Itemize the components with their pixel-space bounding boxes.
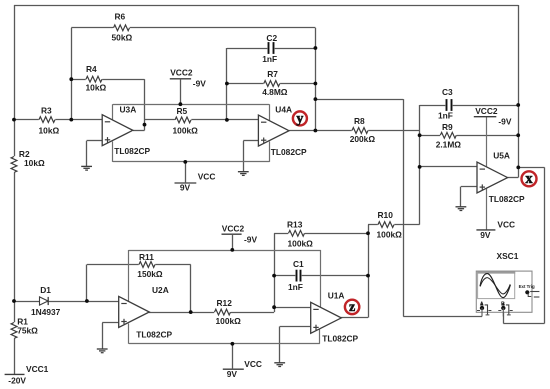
- wire R4 to U3A output vertical: [144, 79, 146, 130]
- resistor R8: [352, 127, 369, 134]
- svg-text:C2: C2: [266, 33, 277, 43]
- wire U1A minus input: [274, 307, 311, 309]
- op-amp U3A: [102, 115, 133, 146]
- svg-text:Ext Trig: Ext Trig: [519, 284, 535, 289]
- svg-text:TL082CP: TL082CP: [114, 146, 150, 156]
- svg-text:C1: C1: [293, 259, 304, 269]
- svg-text:1nF: 1nF: [288, 282, 303, 292]
- svg-text:10kΩ: 10kΩ: [86, 82, 107, 92]
- resistor R2: [11, 156, 18, 173]
- VCC2 stem U5A: [486, 117, 488, 168]
- svg-text:-9V: -9V: [193, 79, 206, 89]
- rail VCC2 -9V row1: [113, 104, 269, 106]
- wire X to scope: [518, 167, 544, 169]
- U2A bottom power stub: [128, 324, 130, 344]
- svg-text:U4A: U4A: [275, 105, 292, 115]
- wire U2A plus to ground: [102, 322, 119, 324]
- wire R5 row: [145, 119, 259, 121]
- capacitor C2: [267, 42, 274, 54]
- svg-text:1nF: 1nF: [438, 111, 453, 121]
- svg-text:200kΩ: 200kΩ: [350, 134, 376, 144]
- svg-text:100kΩ: 100kΩ: [288, 239, 314, 249]
- svg-text:VCC2: VCC2: [170, 67, 193, 77]
- svg-text:1nF: 1nF: [262, 54, 277, 64]
- svg-text:VCC2: VCC2: [222, 224, 245, 234]
- U1A top power stub: [320, 250, 322, 308]
- svg-text:VCC: VCC: [497, 220, 515, 230]
- U4A bottom power stub: [269, 142, 271, 162]
- svg-text:2.1MΩ: 2.1MΩ: [436, 140, 462, 150]
- ground U1A: [274, 362, 285, 364]
- capacitor C1: [295, 269, 301, 281]
- VCC2 -9V supply U5A: [474, 116, 497, 118]
- svg-text:z: z: [349, 300, 355, 315]
- VCC2 -9V supply row1: [170, 78, 191, 80]
- wire top X-feedback: [14, 5, 518, 7]
- svg-text:D1: D1: [40, 285, 51, 295]
- junction dots: [69, 77, 73, 81]
- VCC 9V supply U5A: [476, 229, 495, 231]
- svg-text:R4: R4: [86, 64, 97, 74]
- op-amp U1A: [311, 302, 342, 333]
- wire U4A output / R8 row: [289, 130, 419, 132]
- svg-text:R3: R3: [41, 106, 52, 116]
- svg-text:TL082CP: TL082CP: [322, 334, 358, 344]
- wire R12 row: [149, 312, 274, 314]
- VCC 9V supply row1: [175, 182, 197, 184]
- svg-text:-20V: -20V: [8, 375, 26, 385]
- wire R9 branch: [420, 135, 519, 137]
- node x marker: [522, 171, 537, 186]
- svg-text:U1A: U1A: [328, 291, 345, 301]
- svg-text:R6: R6: [115, 12, 126, 22]
- capacitor C3: [445, 99, 452, 111]
- svg-text:R12: R12: [217, 298, 233, 308]
- svg-text:U2A: U2A: [152, 285, 169, 295]
- wire R11 right vertical: [190, 265, 192, 313]
- svg-text:R13: R13: [287, 220, 303, 230]
- resistor R5: [175, 117, 192, 124]
- ground U3A: [81, 165, 92, 167]
- resistor R13: [288, 230, 305, 237]
- wire right vertical R6/C2/R7 to output node: [315, 28, 317, 131]
- svg-text:TL082CP: TL082CP: [489, 194, 525, 204]
- svg-text:-9V: -9V: [498, 117, 511, 127]
- wire Z node vertical: [368, 225, 370, 318]
- VCC1 -20V supply: [5, 373, 25, 375]
- svg-text:9V: 9V: [180, 183, 191, 193]
- U3A top power stub: [112, 104, 114, 121]
- svg-text:VCC2: VCC2: [475, 106, 498, 116]
- U2A top power stub: [128, 250, 130, 303]
- resistor R9: [440, 132, 457, 139]
- svg-text:R9: R9: [442, 122, 453, 132]
- wire U1A output: [341, 317, 368, 319]
- svg-text:VCC: VCC: [244, 359, 262, 369]
- svg-text:4.8MΩ: 4.8MΩ: [262, 87, 288, 97]
- wire C2 branch: [227, 48, 316, 50]
- wire U5A output: [507, 177, 518, 179]
- U4A top power stub: [269, 104, 271, 121]
- svg-text:XSC1: XSC1: [497, 251, 519, 261]
- U3A bottom power stub: [112, 142, 114, 162]
- svg-text:9V: 9V: [480, 230, 491, 240]
- wire R11 left vertical: [86, 265, 88, 302]
- wire R10 row: [368, 224, 420, 226]
- svg-text:U5A: U5A: [493, 150, 510, 160]
- node y marker: [293, 111, 307, 125]
- wire R7 branch: [227, 83, 316, 85]
- svg-text:x: x: [525, 171, 533, 187]
- rail VCC 9V row2: [129, 343, 320, 345]
- svg-text:100kΩ: 100kΩ: [377, 230, 403, 240]
- wire vertical R6/R4 left: [71, 28, 73, 120]
- wire C1 branch: [274, 275, 368, 277]
- resistor R7: [264, 80, 281, 87]
- wire U5A plus to ground: [461, 186, 477, 188]
- svg-text:R8: R8: [354, 116, 365, 126]
- wire R3 input: [14, 119, 102, 121]
- svg-text:10kΩ: 10kΩ: [39, 125, 60, 135]
- rail VCC2 -9V row2: [129, 250, 321, 252]
- wire X output vertical: [518, 5, 520, 178]
- svg-text:R7: R7: [267, 69, 278, 79]
- wire y=99 to scope-A vertical: [315, 99, 403, 101]
- wire C2/R7 left vertical: [226, 48, 228, 120]
- wire R11 top: [87, 264, 191, 266]
- svg-text:A: A: [480, 302, 484, 308]
- wire R6 top: [71, 27, 315, 29]
- node z marker: [345, 300, 359, 314]
- svg-text:1N4937: 1N4937: [31, 307, 61, 317]
- svg-text:TL082CP: TL082CP: [136, 330, 172, 340]
- resistor R3: [39, 116, 56, 123]
- svg-text:VCC: VCC: [198, 171, 216, 181]
- svg-text:B: B: [501, 302, 505, 308]
- wire scope-B bottom: [503, 323, 544, 325]
- resistor R12: [214, 309, 231, 316]
- svg-text:TL082CP: TL082CP: [271, 147, 307, 157]
- ground U4A: [238, 171, 249, 173]
- oscilloscope XSC1: [476, 271, 532, 312]
- svg-text:-9V: -9V: [244, 235, 257, 245]
- op-amp U2A: [119, 296, 150, 327]
- svg-text:10kΩ: 10kΩ: [24, 158, 45, 168]
- svg-text:100kΩ: 100kΩ: [173, 126, 199, 136]
- wire C1/R13 left vertical: [274, 233, 276, 307]
- wire U5A minus input: [420, 166, 477, 168]
- VCC2 -9V supply row2: [222, 233, 242, 235]
- wire R13 row: [274, 233, 368, 235]
- svg-text:150kΩ: 150kΩ: [137, 269, 163, 279]
- svg-text:U3A: U3A: [120, 105, 137, 115]
- wire U4A plus to ground: [243, 140, 258, 142]
- U1A bottom power stub: [319, 329, 321, 344]
- resistor R10: [378, 221, 395, 228]
- diode D1 1N4937: [40, 297, 49, 305]
- wire U3A output: [133, 130, 145, 132]
- wire C3 branch: [420, 105, 519, 107]
- wire U3A plus to ground: [87, 140, 103, 142]
- rail VCC 9V row1: [113, 161, 270, 163]
- svg-text:R5: R5: [177, 106, 188, 116]
- svg-text:R11: R11: [139, 252, 154, 262]
- VCC 9V supply row2: [223, 368, 244, 370]
- svg-text:75kΩ: 75kΩ: [17, 325, 38, 335]
- wire scope-A vertical: [403, 99, 405, 316]
- resistor R4: [86, 76, 103, 83]
- ground U5A: [456, 206, 467, 208]
- svg-text:y: y: [296, 112, 303, 127]
- svg-text:100kΩ: 100kΩ: [216, 316, 242, 326]
- VCC stem U5A: [486, 188, 488, 230]
- wire scope-A bottom: [403, 316, 482, 318]
- svg-text:VCC1: VCC1: [26, 364, 49, 374]
- wire D1 input row: [14, 301, 119, 303]
- op-amp U4A: [258, 115, 289, 146]
- resistor R6: [113, 24, 130, 31]
- wire scope-B vertical: [544, 167, 546, 323]
- resistor R11: [139, 261, 156, 268]
- svg-text:9V: 9V: [227, 369, 238, 379]
- wire C3/R9 input vertical: [419, 105, 421, 225]
- resistor R1: [11, 322, 18, 339]
- wire U1A plus to ground: [280, 326, 311, 328]
- wire left vertical (X node down left side): [14, 5, 16, 120]
- wire R4: [71, 79, 144, 81]
- svg-text:R10: R10: [378, 210, 394, 220]
- svg-text:50kΩ: 50kΩ: [112, 32, 133, 42]
- ground U2A: [97, 348, 108, 350]
- op-amp U5A: [477, 162, 508, 193]
- svg-text:C3: C3: [442, 87, 453, 97]
